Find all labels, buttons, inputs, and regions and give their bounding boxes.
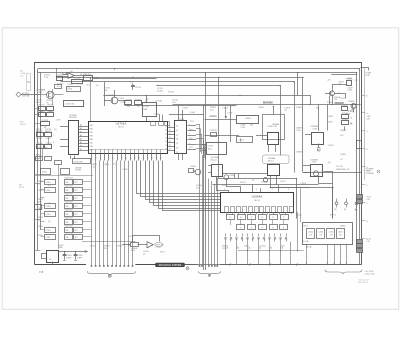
svg-text:MTG 2: MTG 2: [330, 215, 337, 217]
svg-text:U1704: U1704: [178, 119, 185, 121]
svg-text:LIGHTS AT +5V: LIGHTS AT +5V: [336, 168, 350, 171]
resistor R1717: [36, 131, 43, 137]
svg-text:GND A: GND A: [20, 123, 26, 126]
svg-text:100K: 100K: [37, 201, 42, 203]
wire top bus H3: [57, 78, 303, 173]
svg-text:U1904A: U1904A: [252, 195, 263, 199]
wire vertical column 204: [203, 106, 205, 270]
wire group data lines to U1904: [137, 161, 221, 211]
svg-text:7-8: 7-8: [39, 270, 44, 274]
wire drops from diode array: [226, 242, 291, 265]
left resistor rows lower: [36, 155, 91, 165]
svg-text:XTAL: XTAL: [58, 246, 63, 249]
svg-text:R1907 220: R1907 220: [65, 232, 73, 234]
wire drop to U1701 top: [90, 78, 92, 121]
ic U1904 display driver (long): [221, 193, 294, 213]
svg-text:8: 8: [117, 157, 118, 159]
wire top bus H2: [38, 73, 357, 251]
svg-text:R1711: R1711: [39, 104, 46, 106]
note right 115: [367, 116, 372, 120]
wire drops from module group: [306, 244, 348, 264]
svg-text:Q3: Q3: [176, 139, 178, 141]
svg-text:(2): (2): [143, 253, 146, 255]
svg-text:U1802: U1802: [245, 118, 252, 120]
svg-text:C1707: C1707: [45, 143, 52, 145]
svg-text:MC-8: MC-8: [254, 200, 260, 202]
connector pins right lower: [357, 240, 363, 253]
transistor Q1702 crystal osc: [104, 82, 125, 106]
ic U1701 top pin cells: [147, 113, 204, 125]
svg-text:L1901 SO: L1901 SO: [210, 130, 218, 132]
svg-text:30: 30: [169, 126, 171, 128]
left margin note 122: [20, 122, 26, 127]
svg-text:R1903 220: R1903 220: [65, 201, 73, 203]
transistor Q1903: [224, 175, 229, 180]
svg-text:L2002: L2002: [319, 232, 324, 234]
wire stack bottom run: [82, 241, 136, 243]
wire stack left feed: [58, 164, 60, 249]
connector pins right upper: [357, 195, 363, 204]
transistor Q1701: [47, 91, 55, 99]
svg-text:L1910: L1910: [156, 247, 161, 249]
svg-text:L1900: L1900: [46, 182, 51, 184]
transistor Q1802: [351, 104, 356, 109]
svg-text:D5: D5: [165, 145, 167, 147]
capacitor C1902: [74, 251, 83, 261]
svg-text:R1706: R1706: [125, 99, 132, 101]
svg-text:U1901: U1901: [42, 171, 47, 173]
svg-text:MC-14: MC-14: [268, 160, 273, 162]
svg-text:6: 6: [109, 157, 110, 159]
svg-text:L1907: L1907: [90, 246, 96, 248]
svg-text:MC-2: MC-2: [208, 149, 212, 151]
resistor R1804: [342, 113, 350, 118]
wire left vertical rail V2: [40, 73, 42, 231]
svg-text:8 PL: 8 PL: [367, 199, 371, 201]
diode array labels: [225, 245, 284, 249]
sheet zone mark boxes left: [27, 74, 31, 91]
svg-text:31: 31: [169, 130, 171, 132]
svg-text:L1810: L1810: [328, 145, 334, 147]
svg-text:18: 18: [160, 157, 162, 159]
module group box U2001: [303, 223, 353, 245]
resistor R1718: [45, 131, 53, 137]
resistor R1711: [39, 104, 46, 113]
svg-text:32: 32: [169, 133, 171, 135]
svg-text:CONN 8A: CONN 8A: [366, 172, 375, 175]
svg-text:L1704: L1704: [119, 98, 124, 100]
label q1801: [334, 93, 341, 101]
wire top bus H5: [157, 86, 281, 156]
label r1801: [339, 78, 353, 92]
svg-text:R1803: R1803: [341, 105, 348, 107]
svg-text:U1907: U1907: [208, 146, 213, 148]
wire run 184.3: [213, 184, 319, 186]
wire vertical column 230: [230, 107, 232, 143]
wire lights rail: [303, 172, 361, 174]
ic U1701 left pin labels: [90, 124, 93, 152]
svg-text:L2001: L2001: [296, 215, 302, 217]
buffer amp U1906: [122, 236, 160, 253]
svg-text:(2): (2): [48, 185, 51, 187]
svg-text:2 PL: 2 PL: [20, 76, 24, 78]
svg-text:C1903: C1903: [300, 183, 307, 185]
transistor Q1801: [330, 91, 335, 96]
svg-text:U2001: U2001: [340, 225, 346, 227]
wire row1-row2 links: [231, 220, 284, 226]
svg-text:GROUND: GROUND: [156, 245, 165, 247]
svg-text:100: 100: [250, 125, 253, 127]
svg-text:R1905 220: R1905 220: [65, 217, 73, 219]
wire top bus H1: [38, 69, 360, 265]
svg-text:R1805: R1805: [342, 119, 349, 121]
svg-text:C/8: C/8: [330, 235, 333, 237]
bus B brace marker: [208, 274, 211, 277]
ic U1905: [208, 156, 267, 179]
resistor R1707: [135, 99, 142, 108]
wire top bus H7: [125, 105, 237, 107]
svg-text:L1907: L1907: [46, 237, 51, 239]
svg-text:(8): (8): [316, 108, 319, 110]
ic U1904 top stubs: [253, 184, 279, 192]
svg-text:34: 34: [169, 141, 171, 143]
svg-text:C1703: C1703: [135, 87, 141, 89]
svg-text:R1902 220: R1902 220: [65, 193, 73, 195]
svg-text:MTG: MTG: [304, 225, 309, 227]
wire left branch stubs: [35, 95, 41, 251]
ic U1908: [263, 155, 311, 188]
resistor R1704: [84, 74, 93, 80]
transistor Q1909: [313, 171, 323, 176]
svg-text:C1908: C1908: [37, 226, 44, 228]
svg-text:U1701A: U1701A: [116, 122, 127, 126]
frame right rail: [364, 68, 366, 181]
note bottom right: [358, 271, 375, 284]
svg-text:OPT: OPT: [74, 214, 77, 216]
wire net MODEM: [173, 104, 361, 106]
svg-text:12: 12: [134, 157, 136, 159]
svg-text:L1702: L1702: [80, 74, 86, 76]
resistor R1706: [125, 99, 133, 108]
resistor R1801: [346, 78, 353, 85]
svg-text:D4: D4: [366, 149, 368, 151]
resistor R1701: [56, 75, 63, 80]
svg-text:C1909: C1909: [116, 246, 123, 248]
svg-text:R1701: R1701: [56, 75, 63, 77]
svg-text:C294: C294: [348, 90, 352, 92]
svg-text:.01: .01: [350, 117, 352, 119]
svg-text:R1900 220: R1900 220: [65, 177, 73, 179]
svg-text:D2: D2: [165, 134, 167, 136]
resistor C1707: [45, 143, 53, 149]
svg-text:4.7K: 4.7K: [91, 166, 96, 168]
svg-text:(2): (2): [355, 80, 358, 82]
svg-text:(2): (2): [145, 101, 148, 103]
resistor network row 1: [227, 215, 289, 220]
svg-text:C/8: C/8: [339, 235, 342, 237]
right brace: [325, 270, 362, 275]
svg-text:(9): (9): [113, 164, 116, 166]
svg-text:R1906 220: R1906 220: [65, 225, 73, 227]
svg-text:R1713: R1713: [38, 111, 45, 113]
resistor network row 2: [237, 225, 288, 230]
wire left vertical rail V1: [37, 69, 39, 251]
svg-text:T.98: T.98: [334, 99, 337, 101]
svg-text:36: 36: [169, 149, 171, 151]
bus A brace: [87, 271, 135, 275]
svg-text:14: 14: [143, 157, 145, 159]
note right 238: [367, 239, 372, 243]
resistor R1803: [341, 105, 348, 110]
bus column group A: [91, 161, 134, 267]
svg-text:(12): (12): [222, 248, 226, 250]
capacitor C1703: [130, 81, 141, 90]
svg-text:OPT: OPT: [74, 198, 77, 200]
svg-text:L1908 (2): L1908 (2): [261, 182, 269, 184]
labels around Q1701: [39, 89, 52, 105]
svg-text:MODEM: MODEM: [335, 102, 344, 105]
svg-text:(4): (4): [96, 85, 99, 87]
svg-text:(12): (12): [281, 246, 285, 248]
wire left cluster links: [41, 126, 49, 156]
svg-text:R1901 220: R1901 220: [65, 185, 73, 187]
svg-text:MODEM: MODEM: [263, 102, 273, 105]
wire top bus H6: [105, 96, 311, 105]
svg-text:L1802: L1802: [347, 78, 352, 80]
svg-text:74LS244: 74LS244: [69, 117, 77, 119]
svg-text:C294: C294: [313, 129, 317, 131]
svg-text:C/8: C/8: [320, 235, 323, 237]
svg-text:C3: C3: [366, 131, 368, 133]
resistor R1705 flat: [67, 87, 81, 92]
svg-text:F6: F6: [366, 185, 368, 187]
wire group box feeds: [300, 188, 302, 222]
svg-text:L1808 C294: L1808 C294: [268, 126, 277, 128]
svg-text:(C/A) 1: (C/A) 1: [157, 89, 164, 92]
svg-text:CR1701: CR1701: [61, 74, 69, 76]
svg-text:(4): (4): [48, 203, 51, 205]
note right 197: [367, 197, 372, 201]
svg-text:(8) C/A: (8) C/A: [306, 246, 312, 249]
ic U1701 right pin labels: [165, 126, 175, 151]
right edge exit stubs: [362, 94, 369, 241]
svg-text:(8): (8): [350, 123, 353, 125]
svg-text:H8: H8: [366, 221, 368, 223]
svg-text:C1705: C1705: [182, 108, 189, 110]
svg-text:L1705A: L1705A: [155, 100, 163, 103]
bus A brace marker: [108, 274, 111, 277]
label optical: [205, 116, 239, 137]
svg-text:L1912: L1912: [280, 181, 286, 183]
svg-text:REF 2: REF 2: [36, 102, 43, 104]
svg-text:L2002: L2002: [260, 246, 266, 248]
svg-text:OPT: OPT: [74, 190, 77, 192]
svg-text:Q1: Q1: [176, 130, 178, 132]
svg-text:C1704: C1704: [120, 102, 127, 104]
resistor R1713: [38, 111, 45, 117]
svg-text:L: L: [248, 245, 249, 247]
svg-text:OPT: OPT: [74, 230, 77, 232]
svg-text:L1903: L1903: [46, 206, 51, 208]
net label RS DIGITAL STROBE (inverse): [156, 263, 194, 270]
svg-text:L1703: L1703: [67, 88, 72, 90]
module sub-boxes: [307, 229, 345, 239]
box C1804 cluster: [237, 137, 253, 143]
svg-text:C1802: C1802: [222, 108, 229, 110]
svg-text:E5: E5: [366, 167, 368, 169]
svg-text:2.2K: 2.2K: [44, 77, 49, 79]
svg-text:L1705: L1705: [144, 106, 149, 108]
wire run 188.2: [271, 188, 333, 219]
note top right: [361, 68, 372, 77]
ic U1802: [205, 116, 259, 130]
svg-text:15: 15: [147, 157, 149, 159]
svg-text:R1714: R1714: [47, 111, 54, 113]
box U1901: [41, 167, 83, 175]
svg-text:(2): (2): [232, 105, 235, 107]
svg-text:OPTISO: OPTISO: [210, 116, 218, 118]
svg-text:C1805A: C1805A: [348, 100, 355, 103]
svg-text:10L 0.1 B 2.2: 10L 0.1 B 2.2: [358, 282, 368, 284]
crystal Y1901: [42, 245, 88, 264]
bus B brace: [199, 271, 221, 275]
svg-text:(2): (2): [252, 180, 255, 182]
svg-text:Q0: Q0: [176, 126, 178, 128]
svg-text:Q4: Q4: [176, 143, 178, 145]
svg-text:L: L: [237, 245, 238, 247]
svg-text:3: 3: [96, 157, 97, 159]
svg-text:R1809: R1809: [340, 130, 347, 132]
svg-text:OPT: OPT: [74, 237, 77, 239]
svg-text:6 PL: 6 PL: [367, 241, 371, 243]
svg-text:R1806: R1806: [296, 107, 303, 109]
svg-text:R1810: R1810: [191, 166, 196, 168]
svg-text:C1804: C1804: [239, 139, 244, 141]
left margin note 185: [19, 185, 25, 190]
svg-text:L1704 OSC: L1704 OSC: [65, 103, 75, 105]
svg-text:D6: D6: [165, 149, 167, 151]
svg-text:OPT: OPT: [74, 182, 77, 184]
svg-text:R1904 220: R1904 220: [65, 209, 73, 211]
svg-text:C294: C294: [312, 162, 316, 164]
svg-text:(C/A): (C/A): [190, 111, 195, 114]
svg-text:R1911: R1911: [240, 182, 247, 184]
wire 4bit node: [93, 78, 157, 80]
wire right bend down 297: [297, 73, 299, 96]
svg-text:B2: B2: [366, 113, 368, 115]
svg-text:U1702 DRV: U1702 DRV: [74, 161, 84, 163]
wire stub H2 to cluster: [66, 73, 68, 75]
svg-text:4: 4: [100, 157, 101, 159]
relay K1701 box: [143, 96, 157, 117]
current sources right of U1904: [335, 199, 358, 212]
resistor R1805: [342, 119, 350, 124]
capacitor C1702 box: [55, 85, 62, 89]
svg-text:R1719: R1719: [36, 147, 43, 149]
svg-text:(2): (2): [48, 221, 51, 223]
resistor C1701: [72, 77, 83, 83]
ic U1703 right pin stubs: [79, 123, 89, 150]
ic U1701 bottom pin cells: [90, 149, 168, 160]
wire stub H1 to cluster: [56, 69, 58, 77]
svg-text:C294: C294: [241, 127, 245, 129]
svg-text:L1708: L1708: [154, 113, 159, 115]
resistor R1702: [41, 120, 50, 129]
svg-text:10: 10: [125, 157, 127, 159]
svg-text:L1703: L1703: [77, 84, 83, 86]
transistor Q1806 with base resistor: [189, 166, 201, 175]
svg-text:R1712: R1712: [47, 104, 54, 106]
svg-text:+DIG +5 GD: +DIG +5 GD: [365, 273, 376, 275]
left rail under boxes: [35, 175, 94, 177]
resistor C1706: [36, 143, 43, 149]
svg-text:L1901: L1901: [46, 190, 51, 192]
resistor R1712: [47, 104, 55, 113]
wire group U1704 to mid ICs: [196, 124, 206, 160]
svg-text:R1807: R1807: [327, 102, 334, 104]
svg-text:R1903: R1903: [36, 155, 41, 157]
svg-text:C1706: C1706: [36, 143, 43, 145]
svg-text:R1707: R1707: [135, 99, 142, 101]
svg-text:C1701: C1701: [74, 77, 81, 79]
svg-text:C/L M: C/L M: [228, 113, 233, 115]
svg-text:35: 35: [169, 145, 171, 147]
connector J1 input diamond: [16, 92, 35, 97]
schematic border frame: [35, 63, 362, 265]
svg-text:17: 17: [155, 157, 157, 159]
wire bottom rail: [193, 263, 361, 265]
wire diode collector rail: [238, 250, 304, 252]
ic U1704 right pin stubs: [188, 124, 197, 150]
wire vertical column 219 with run 178.5: [219, 78, 297, 219]
wire vertical column 205: [205, 73, 207, 270]
svg-text:C1907: C1907: [37, 208, 44, 210]
box U1907 extra: [202, 143, 227, 155]
svg-text:R1704: R1704: [85, 74, 92, 76]
svg-text:C1805: C1805: [340, 154, 347, 156]
box L1902 margin: [35, 205, 42, 210]
ground oval label: [155, 242, 164, 249]
ic U1703 left pin stubs: [60, 127, 68, 147]
svg-text:L2003: L2003: [329, 232, 334, 234]
label lights: [336, 166, 350, 171]
svg-text:R1702: R1702: [42, 120, 49, 122]
svg-text:L1803: L1803: [258, 107, 264, 109]
ic U1701 microcomputer (large): [89, 122, 168, 154]
svg-text:11: 11: [130, 157, 132, 159]
label smudge clusters: [36, 74, 358, 256]
svg-text:OPT: OPT: [74, 222, 77, 224]
svg-text:C1906: C1906: [37, 190, 44, 192]
svg-text:L1911: L1911: [222, 185, 228, 187]
svg-text:1/2W: 1/2W: [56, 120, 61, 122]
ic U1809A: [305, 125, 324, 151]
svg-text:MC-14: MC-14: [211, 160, 217, 162]
svg-text:13: 13: [138, 157, 140, 159]
arrow stub C/L M: [225, 107, 233, 120]
svg-text:D0: D0: [165, 126, 167, 128]
ic U1703 bottom stubs: [71, 156, 75, 160]
ic U1704 latch (narrow): [175, 119, 187, 154]
transistor Q1907: [261, 178, 269, 184]
svg-text:RET B: RET B: [19, 187, 25, 189]
svg-text:9: 9: [121, 157, 122, 159]
ic U1904 bottom pin cells: [225, 207, 294, 215]
svg-text:MC-8: MC-8: [118, 127, 124, 129]
svg-text:U1809B: U1809B: [296, 152, 304, 154]
wire right column links: [319, 85, 354, 132]
svg-text:CR1702: CR1702: [36, 90, 44, 92]
